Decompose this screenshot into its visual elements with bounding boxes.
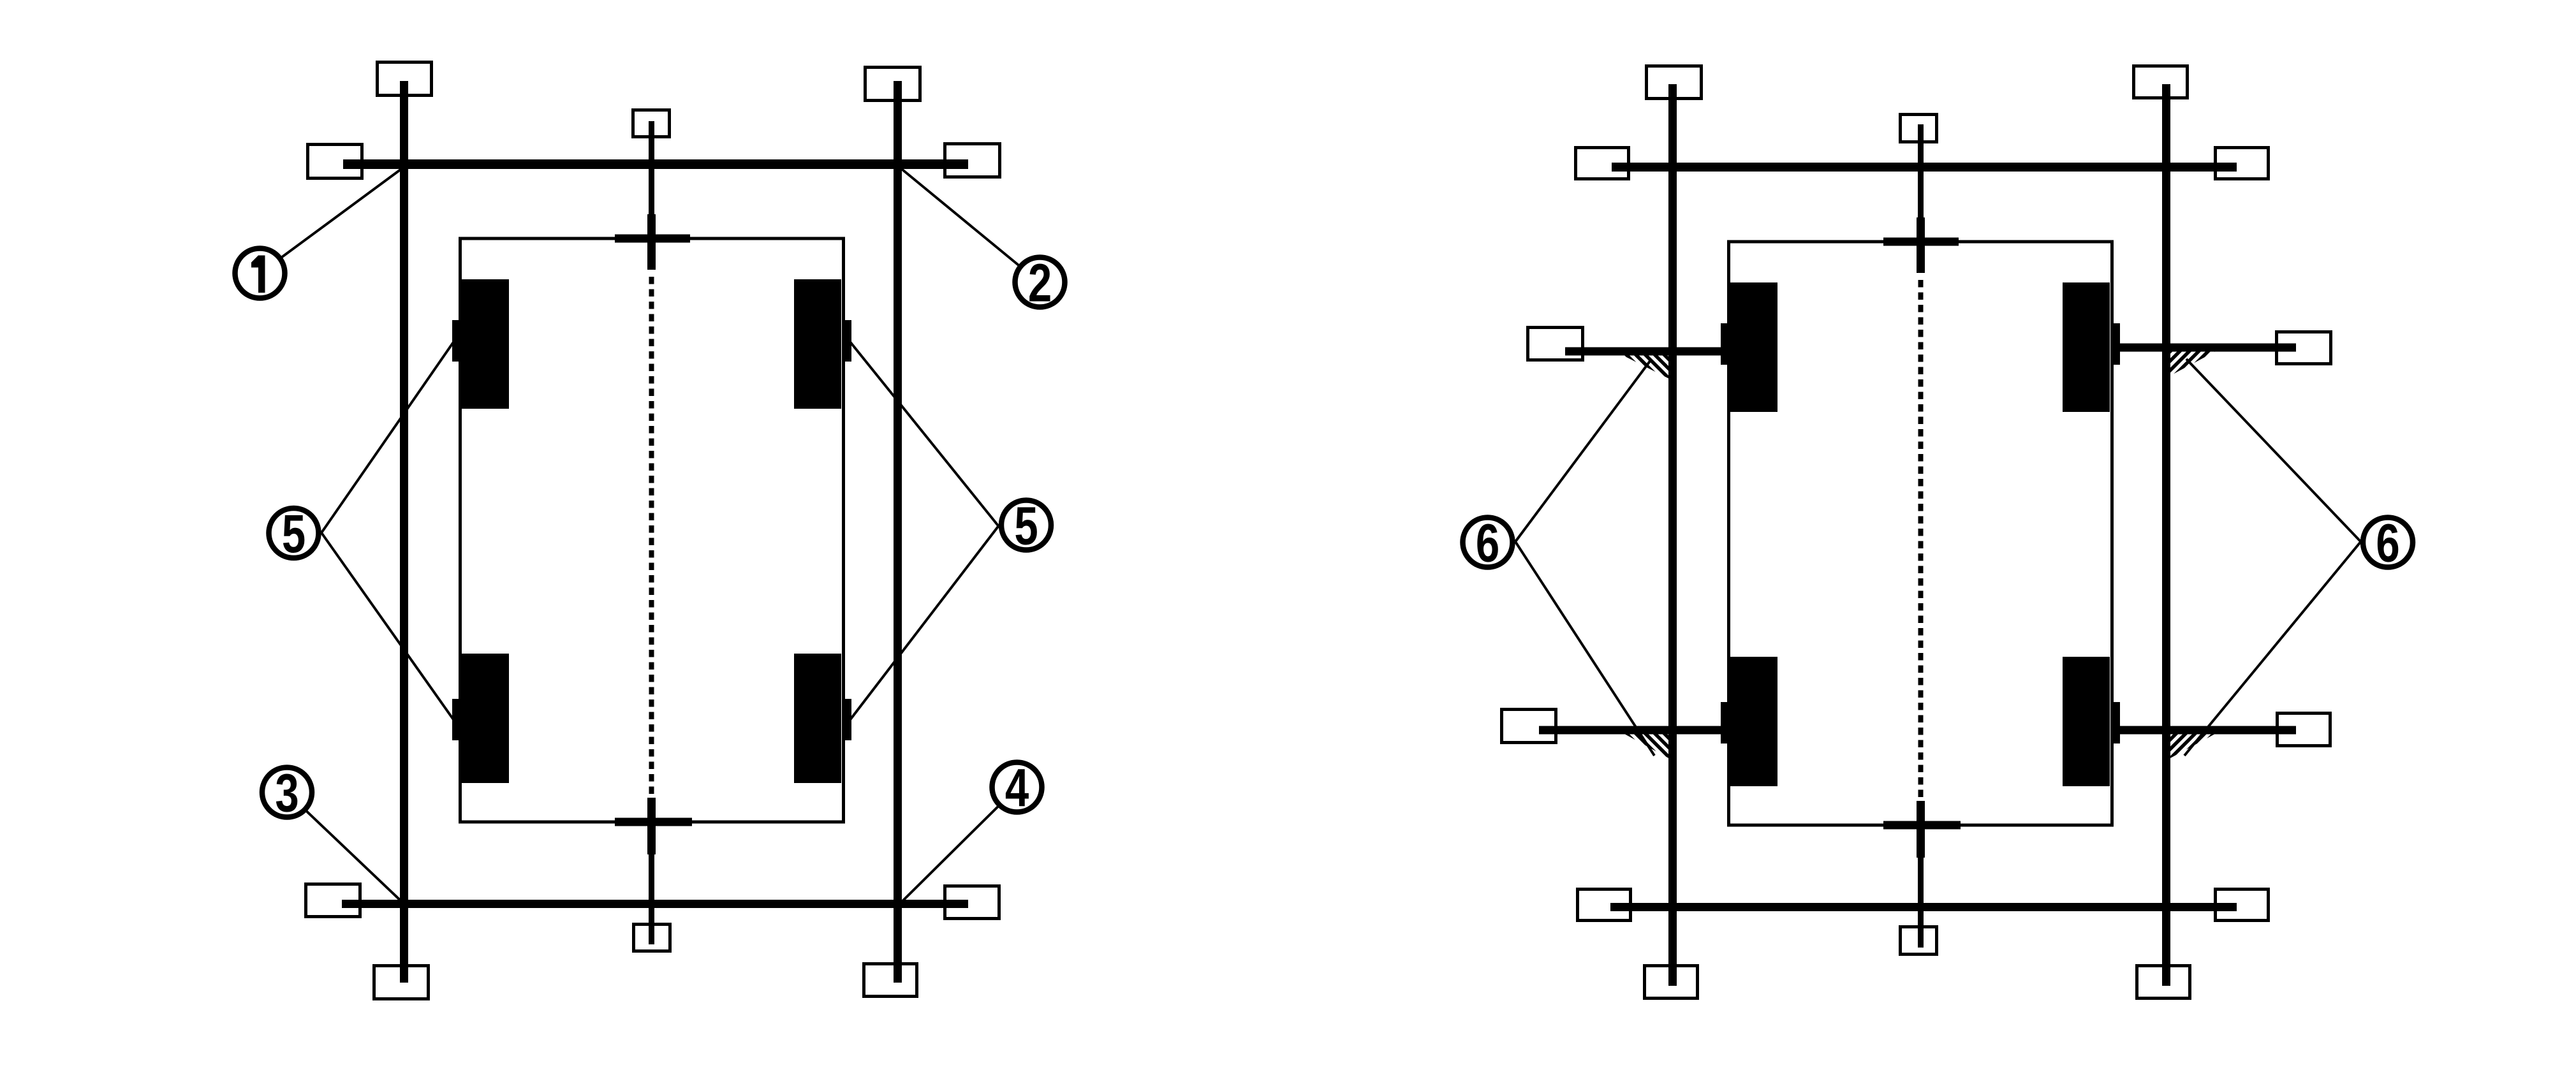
body outline rectangle right diagram <box>1729 242 2112 825</box>
target plate wheel row top-right <box>2277 332 2331 364</box>
leader line 5 left upper <box>321 341 454 533</box>
center cross bottom vertical bar <box>647 798 656 854</box>
svg-text:2: 2 <box>1028 253 1052 313</box>
target plate top-right corner <box>865 68 920 101</box>
target plate wheel row bottom-left <box>1502 710 1556 743</box>
leader line 4 <box>899 787 1017 905</box>
leader line 3 <box>287 793 404 904</box>
target plate top rail left right diagram <box>1576 148 1629 179</box>
wheel bottom-left <box>462 654 509 783</box>
label 5 left <box>269 504 319 564</box>
leader line 6 right upper <box>2186 359 2361 542</box>
leader line 6 left lower <box>1515 542 1654 756</box>
label 2 <box>1015 253 1065 313</box>
svg-text:6: 6 <box>2376 513 2399 573</box>
wheel top-left right diagram <box>1730 282 1777 412</box>
leader line 5 left lower <box>321 533 454 721</box>
svg-text:5: 5 <box>282 504 305 564</box>
center line top segment <box>649 121 654 214</box>
left axle right diagram <box>1668 84 1677 986</box>
target plate wheel row top-left <box>1528 328 1583 360</box>
hub tab top-right right diagram <box>2110 323 2120 365</box>
target plate top-right corner right diagram <box>2134 66 2188 98</box>
hub tab top-left <box>452 320 462 362</box>
wheel bottom-right right diagram <box>2063 657 2110 786</box>
hub tab bottom-right right diagram <box>2110 702 2120 743</box>
body outline rectangle <box>460 238 844 822</box>
wheel bottom-left right diagram <box>1730 657 1777 786</box>
center dashed line <box>649 277 654 796</box>
center cross bottom vertical bar right diagram <box>1917 801 1925 858</box>
wheel row rail bottom-left <box>1539 726 1721 735</box>
wheel bottom-right <box>794 654 841 783</box>
target plate bottom-right corner <box>864 964 917 997</box>
cross bottom horizontal bar <box>615 818 692 826</box>
center cross top vertical bar <box>647 214 656 270</box>
center line top segment right diagram <box>1918 124 1924 217</box>
right axle right diagram <box>2162 84 2170 986</box>
bottom rail <box>342 900 968 908</box>
left axle <box>400 81 408 983</box>
target plate top rail right right diagram <box>2216 148 2269 179</box>
cross top horizontal bar right diagram <box>1883 238 1959 246</box>
target plate bottom-left corner <box>374 966 429 999</box>
leader line 5 right upper <box>850 341 999 526</box>
target plate bottom rail left right diagram <box>1578 890 1631 921</box>
target plate bottom rail left <box>306 884 360 917</box>
hub tab top-left right diagram <box>1721 323 1730 365</box>
wheel top-left <box>462 279 509 409</box>
leader line 6 left upper <box>1515 360 1651 542</box>
top rail <box>343 159 968 169</box>
bottom rail right diagram <box>1610 903 2237 911</box>
weld wedge bottom-left <box>1625 735 1677 763</box>
target plate wheel row bottom-right <box>2278 714 2330 746</box>
wheel row rail bottom-right <box>2120 726 2296 735</box>
center line bottom segment right diagram <box>1918 858 1924 948</box>
weld wedge top-left <box>1623 356 1677 383</box>
weld wedge bottom-right <box>2162 735 2214 763</box>
target plate bottom-right corner right diagram <box>2137 966 2190 999</box>
hub tab bottom-left right diagram <box>1721 702 1730 743</box>
target plate top rail right <box>945 144 1000 177</box>
target plate top rail left <box>308 145 362 179</box>
svg-text:5: 5 <box>1014 496 1038 556</box>
target plate center top <box>633 110 670 137</box>
center line bottom segment <box>649 854 654 944</box>
label 5 right <box>1001 496 1051 556</box>
label 4 <box>992 758 1042 818</box>
target plate top-left corner right diagram <box>1647 66 1702 99</box>
cross top horizontal bar <box>615 235 690 243</box>
wheel top-right right diagram <box>2063 282 2110 412</box>
label 3 <box>262 763 312 823</box>
label 6 left <box>1463 513 1513 573</box>
target plate center top right diagram <box>1901 115 1937 142</box>
target plate bottom rail right right diagram <box>2216 890 2269 921</box>
target plate center bottom right diagram <box>1901 927 1937 955</box>
hub tab bottom-right <box>842 699 851 740</box>
cross bottom horizontal bar right diagram <box>1883 821 1961 830</box>
hub tab top-right <box>842 320 851 362</box>
target plate bottom-left corner right diagram <box>1645 966 1698 999</box>
target plate top-left corner <box>378 62 432 96</box>
top rail right diagram <box>1612 163 2237 172</box>
wheel top-right <box>794 279 841 409</box>
hub tab bottom-left <box>452 699 462 740</box>
leader line 1 <box>260 166 406 274</box>
svg-text:6: 6 <box>1476 513 1499 573</box>
label 1 <box>235 249 285 298</box>
right axle <box>894 81 902 983</box>
center dashed line right diagram <box>1918 280 1924 800</box>
wheel row rail top-left <box>1565 348 1721 356</box>
svg-text:3: 3 <box>275 763 298 823</box>
leader line 6 right lower <box>2184 542 2361 756</box>
leader line 5 right lower <box>850 526 999 721</box>
target plate bottom rail right <box>945 886 999 919</box>
svg-text:4: 4 <box>1005 758 1029 818</box>
wheel row rail top-right <box>2120 344 2296 352</box>
target plate center bottom <box>634 925 670 951</box>
center cross top vertical bar right diagram <box>1917 217 1925 273</box>
label 6 right <box>2363 513 2413 573</box>
leader line 2 <box>899 167 1040 282</box>
weld wedge top-right <box>2162 352 2215 381</box>
